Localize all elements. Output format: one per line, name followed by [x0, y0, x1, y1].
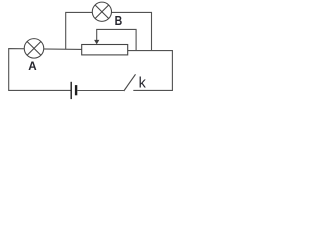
svg-text:B: B: [115, 13, 123, 28]
svg-text:A: A: [28, 59, 37, 73]
svg-text:k: k: [139, 75, 147, 92]
